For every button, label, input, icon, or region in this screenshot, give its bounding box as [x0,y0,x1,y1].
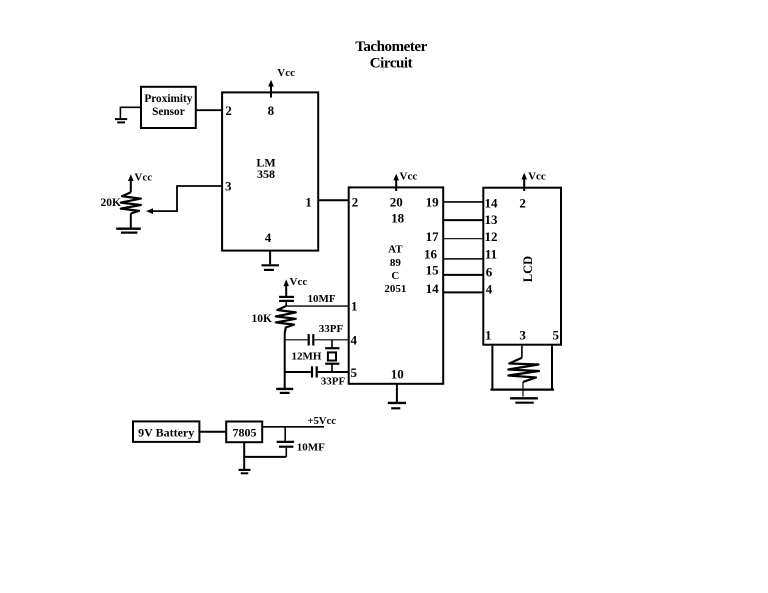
svg-text:2: 2 [225,103,232,118]
svg-text:2: 2 [519,195,526,210]
svg-text:15: 15 [426,263,440,278]
svg-text:Tachometer: Tachometer [355,39,427,55]
svg-text:4: 4 [265,230,272,245]
svg-text:5: 5 [351,365,358,380]
svg-text:14: 14 [426,281,440,296]
svg-text:AT: AT [388,244,403,256]
svg-text:20: 20 [390,195,403,210]
svg-text:2051: 2051 [384,283,406,295]
svg-text:Vcc: Vcc [134,171,152,183]
svg-text:10: 10 [391,367,404,382]
svg-text:18: 18 [391,211,405,226]
svg-text:33PF: 33PF [319,323,344,335]
svg-text:10MF: 10MF [308,293,336,305]
svg-text:Vcc: Vcc [400,171,418,183]
svg-text:8: 8 [268,103,275,118]
svg-text:3: 3 [519,327,526,342]
svg-text:19: 19 [426,195,440,210]
svg-text:7805: 7805 [233,425,257,439]
svg-text:1: 1 [485,327,492,342]
svg-text:13: 13 [485,212,499,227]
svg-text:Proximity: Proximity [144,93,192,105]
svg-text:2: 2 [352,194,359,209]
svg-text:11: 11 [485,246,497,261]
svg-text:12: 12 [485,229,498,244]
svg-text:1: 1 [351,299,358,314]
svg-text:+5Vcc: +5Vcc [307,415,336,427]
svg-text:12MH: 12MH [292,351,322,363]
svg-text:20K: 20K [101,197,122,209]
svg-text:4: 4 [486,282,493,297]
svg-text:LCD: LCD [521,256,535,282]
svg-text:3: 3 [225,178,232,193]
svg-text:17: 17 [426,229,440,244]
svg-text:6: 6 [486,265,493,280]
svg-text:Vcc: Vcc [290,276,308,288]
svg-text:1: 1 [305,194,312,209]
svg-text:89: 89 [390,257,402,269]
svg-text:Circuit: Circuit [370,56,413,72]
svg-text:C: C [391,270,399,282]
svg-text:358: 358 [257,167,275,181]
svg-text:Sensor: Sensor [152,106,185,118]
svg-text:33PF: 33PF [321,376,346,388]
svg-text:5: 5 [552,327,559,342]
svg-text:10K: 10K [252,313,273,325]
svg-text:9V Battery: 9V Battery [138,425,194,439]
svg-text:16: 16 [424,247,438,262]
svg-text:4: 4 [351,333,358,348]
svg-text:Vcc: Vcc [528,170,546,182]
svg-text:Vcc: Vcc [277,67,295,79]
svg-text:14: 14 [485,195,499,210]
svg-text:10MF: 10MF [297,441,325,453]
